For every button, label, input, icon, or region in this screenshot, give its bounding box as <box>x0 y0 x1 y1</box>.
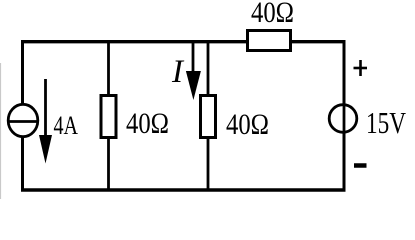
voltage source V1 15V <box>329 105 357 133</box>
wire branch R1 vertical <box>107 40 110 191</box>
current source I1 4A <box>8 104 38 136</box>
scan artifact left edge <box>0 63 2 199</box>
wire left vertical <box>21 40 24 191</box>
label plus sign <box>354 67 368 70</box>
wire top horizontal <box>21 40 346 43</box>
svg-text:15V: 15V <box>366 106 406 140</box>
svg-text:40Ω: 40Ω <box>251 0 294 29</box>
arrow 4A current direction <box>44 79 47 140</box>
arrow I current direction <box>192 43 195 75</box>
svg-text:40Ω: 40Ω <box>126 107 169 140</box>
wire branch R2 vertical <box>207 40 210 191</box>
wire bottom horizontal <box>21 188 346 191</box>
svg-text:40Ω: 40Ω <box>226 108 269 141</box>
resistor R2 40ohm vertical <box>201 96 216 138</box>
resistor R1 40ohm vertical <box>101 96 116 138</box>
label minus sign <box>354 163 367 168</box>
resistor R3 40ohm horizontal <box>248 31 291 51</box>
svg-text:4A: 4A <box>54 111 79 140</box>
svg-text:I: I <box>171 54 185 90</box>
wire right vertical <box>343 40 346 191</box>
